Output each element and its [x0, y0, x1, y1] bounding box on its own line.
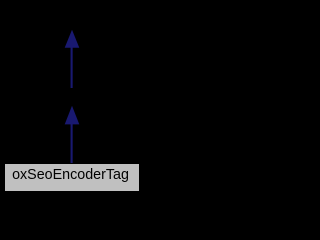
inheritance arrow 1 (midnightblue, pointing up at top box)	[0, 0, 144, 195]
parent class box (top, truncated black node)	[56, 12, 88, 30]
arrow shaft 1	[71, 47, 73, 88]
parent class box (middle, truncated black node)	[56, 88, 88, 106]
arrowhead 1	[65, 30, 80, 48]
class box oxSeoEncoderTag (current class, gray fill)	[4, 163, 140, 192]
arrowhead 2	[65, 106, 80, 125]
class name label	[12, 168, 129, 182]
arrow shaft 2	[71, 124, 73, 164]
